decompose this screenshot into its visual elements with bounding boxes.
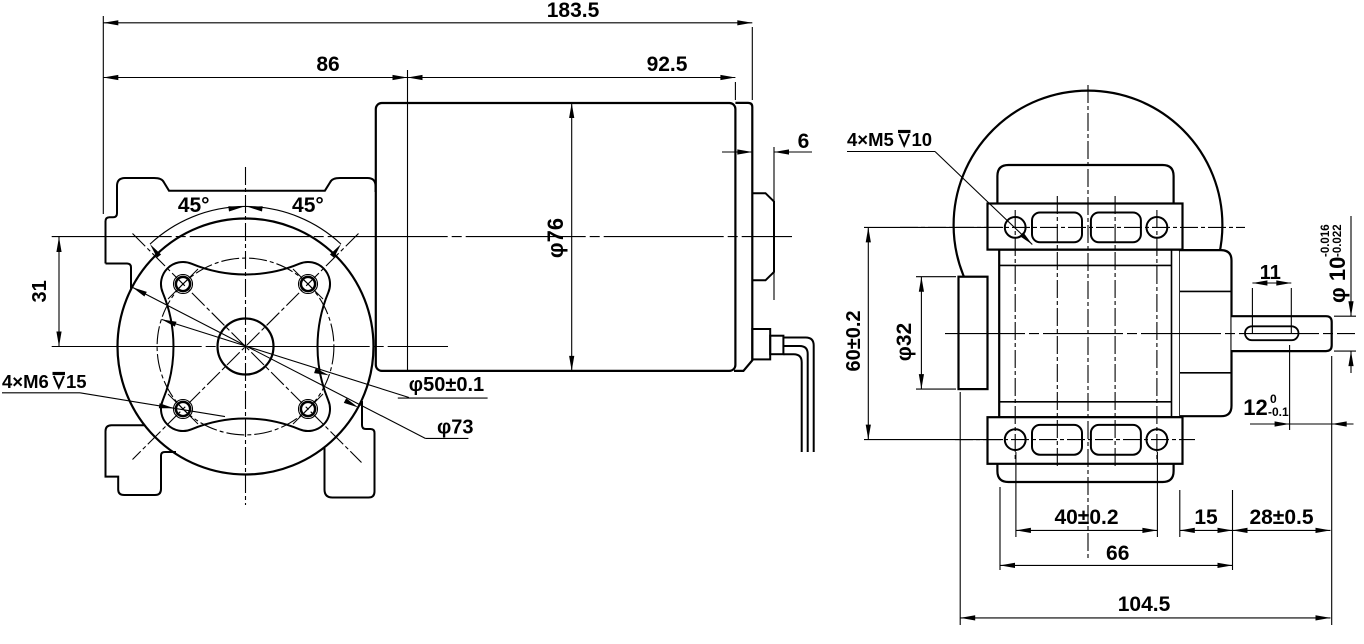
cover gap right [1170, 252, 1183, 415]
flange slot 1 [1032, 213, 1082, 243]
dim phi10 with tolerance [1334, 315, 1356, 317]
svg-text:11: 11 [1260, 262, 1281, 284]
flange bottom-left foot [106, 425, 177, 495]
face groove contour [161, 262, 330, 431]
bottom cap [997, 462, 1173, 482]
output housing boss (right) [1180, 250, 1232, 417]
svg-text:-0.022: -0.022 [1332, 224, 1344, 257]
svg-text:φ76: φ76 [543, 218, 568, 258]
dim 6 [722, 151, 752, 153]
dim 86 [103, 77, 407, 79]
dim 66 [999, 487, 1001, 570]
hole centerline left [1014, 210, 1016, 462]
leader 4xM5 [935, 152, 1032, 245]
svg-text:φ 10: φ 10 [1325, 257, 1350, 303]
dim 104.5 [959, 392, 961, 625]
svg-text:45°: 45° [292, 194, 324, 217]
shaft keyway [1245, 326, 1299, 340]
phi73 dimension line [132, 287, 425, 438]
boss interior line bottom [1180, 372, 1232, 374]
svg-text:4×M5: 4×M5 [847, 129, 894, 150]
M5 hole 1 [1005, 217, 1026, 238]
center output shaft hole [218, 319, 274, 375]
M6 tapped hole 2 [299, 275, 318, 294]
M5 hole 4 [1147, 429, 1168, 450]
bottom hole row axis [955, 439, 1195, 441]
brush cap bump [752, 193, 774, 280]
bolt circle phi50 (dash-dot) [157, 258, 334, 435]
terminal block outer [752, 329, 770, 359]
svg-text:60±0.2: 60±0.2 [843, 310, 865, 371]
M5 hole 3 [1005, 429, 1026, 450]
slot centerline 2 [1114, 196, 1116, 468]
motor body rectangle [376, 103, 736, 371]
bottom mounting flange strip [988, 417, 1183, 464]
svg-text:4×M6: 4×M6 [2, 371, 49, 392]
wire 2 [783, 346, 807, 452]
gearbox round boss circle phi73 outline [118, 219, 374, 475]
terminal block inner [770, 336, 783, 355]
dim phi76 [571, 103, 573, 371]
output shaft axis [945, 333, 1355, 335]
svg-text:12: 12 [1243, 395, 1267, 420]
phi50 dimension line [162, 319, 410, 397]
svg-text:15: 15 [1194, 506, 1218, 529]
svg-text:15: 15 [66, 371, 87, 392]
cover gap left [986, 252, 1002, 415]
svg-text:40±0.2: 40±0.2 [1054, 506, 1118, 529]
housing interior line bottom [999, 401, 1171, 403]
flange slot 4 [1091, 425, 1141, 455]
diagonal centerline NW-SE [133, 234, 362, 463]
middle band [999, 250, 1180, 418]
top cap [997, 165, 1173, 205]
svg-text:φ32: φ32 [893, 323, 916, 361]
svg-text:66: 66 [1106, 542, 1129, 565]
M6 tapped hole 3 [174, 400, 193, 419]
flange slot 3 [1032, 425, 1082, 455]
svg-text:28±0.5: 28±0.5 [1249, 506, 1313, 529]
motor circle (end view) [954, 91, 1223, 360]
svg-text:φ73: φ73 [437, 417, 474, 439]
wire 3 [783, 354, 801, 452]
svg-text:86: 86 [316, 53, 339, 76]
housing interior line top [999, 264, 1171, 266]
top mounting flange strip [988, 204, 1183, 250]
dim 11 [1251, 288, 1253, 334]
phi32 bearing boss (left tab) [959, 277, 988, 389]
dim 92.5 [408, 77, 736, 79]
dim 40 [1015, 452, 1017, 537]
boss interior line top [1180, 290, 1232, 292]
dim 15 [1179, 490, 1181, 537]
svg-text:183.5: 183.5 [547, 0, 600, 22]
flange left ledge [106, 264, 132, 289]
svg-text:45°: 45° [178, 194, 210, 217]
flange slot 2 [1091, 213, 1141, 243]
svg-text:-0.016: -0.016 [1320, 224, 1332, 257]
vertical centerline [245, 167, 247, 505]
dim 12 with tolerance [1289, 345, 1291, 430]
svg-text:0: 0 [1270, 392, 1277, 406]
M5 hole 2 [1147, 217, 1168, 238]
svg-text:92.5: 92.5 [647, 53, 688, 76]
svg-text:10: 10 [912, 129, 933, 150]
flange bottom-right foot [325, 401, 375, 498]
svg-text:φ50±0.1: φ50±0.1 [409, 374, 484, 396]
dim 28 [1232, 490, 1234, 570]
dim 31 [58, 237, 60, 347]
top hole row axis / motor axis [900, 226, 1245, 228]
leader 4xM6 [80, 393, 225, 417]
wire 1 [783, 338, 813, 453]
horizontal output axis [52, 346, 448, 348]
horizontal motor axis [52, 236, 792, 238]
svg-text:-0.1: -0.1 [1268, 405, 1289, 419]
motor end cap [734, 103, 752, 371]
output shaft [1232, 316, 1332, 351]
gearbox flange top bar with ears (front view) [106, 178, 376, 264]
right view vertical centerline [1087, 85, 1089, 558]
dim 183.5 [103, 22, 752, 24]
svg-text:6: 6 [798, 130, 810, 153]
M6 tapped hole 4 [299, 400, 318, 419]
slot centerline 1 [1056, 196, 1058, 468]
diagonal centerline NE-SW [133, 234, 359, 460]
housing cover joint line [1171, 250, 1173, 418]
dim 60 [864, 226, 1003, 228]
M6 tapped hole 1 [174, 275, 193, 294]
dim phi32 [916, 276, 956, 278]
svg-text:104.5: 104.5 [1118, 593, 1171, 616]
45 deg dimension arc [150, 206, 341, 244]
hole centerline right [1156, 210, 1158, 462]
gearbox/motor joint line [407, 70, 409, 371]
svg-text:31: 31 [29, 280, 51, 302]
